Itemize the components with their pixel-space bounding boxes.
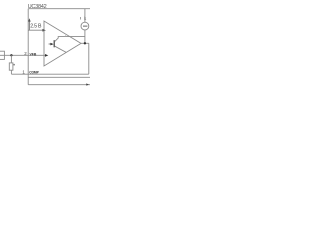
transistor Q1 base bar <box>54 40 55 47</box>
transistor Q1 collector <box>55 37 85 42</box>
arrowhead on bottom border <box>86 83 89 85</box>
op-amp U1 error amplifier triangle <box>44 21 81 66</box>
top rail wire <box>28 8 90 10</box>
node B junction dot <box>84 42 86 44</box>
svg-text:VFB: VFB <box>30 52 37 56</box>
resistor R2 (vertical) <box>9 63 13 70</box>
transistor Q1 base wire <box>49 43 52 45</box>
VFB input arrowhead <box>45 54 48 57</box>
wire R2 to COMP <box>10 70 12 74</box>
COMP wire <box>11 73 88 75</box>
internal ground rail <box>28 76 90 78</box>
inverting input arrowhead <box>43 29 46 32</box>
transistor Q1 base arrowhead <box>50 43 53 46</box>
node A junction dot <box>10 54 12 56</box>
wire output to COMP <box>88 43 90 74</box>
current source I1 circle <box>81 22 89 30</box>
collector stub to edge <box>65 34 67 37</box>
wire junction to resistor R2 <box>10 55 12 63</box>
svg-text:2.5 В: 2.5 В <box>30 23 42 29</box>
R2 label mark <box>14 64 15 66</box>
transistor Q1 emitter <box>55 46 66 52</box>
current source I1 inner dash <box>83 25 87 27</box>
pin 2 VFB wire <box>0 54 45 56</box>
resistor R1 (left, on VFB wire) <box>0 51 4 59</box>
background <box>0 0 90 90</box>
svg-text:COMP: COMP <box>29 70 39 74</box>
svg-text:I: I <box>80 16 81 21</box>
output wire from op-amp apex <box>81 42 89 44</box>
inverting input wire <box>28 29 43 31</box>
current source I1 top wire <box>84 9 86 23</box>
2.5V reference arrow <box>28 21 30 31</box>
bottom border wire <box>28 84 90 86</box>
left border wire <box>27 9 29 85</box>
current source I1 bottom wire <box>84 30 86 43</box>
